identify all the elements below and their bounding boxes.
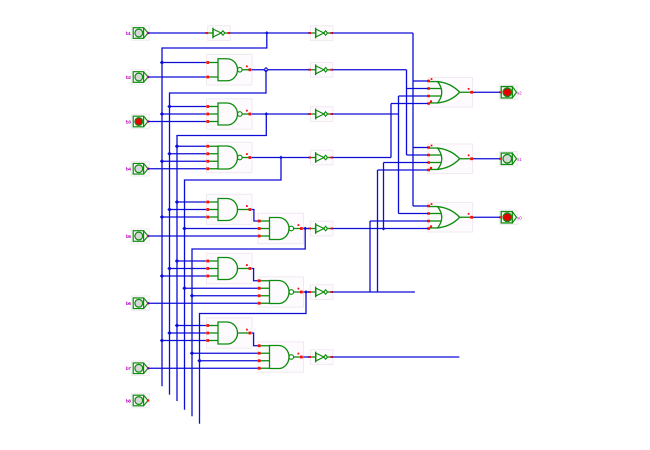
junction G out bbox=[304, 290, 308, 294]
junction hook bus2/B.in1 bbox=[167, 104, 171, 108]
input pin b1 bbox=[126, 26, 149, 40]
or gate Z (4-in) bbox=[427, 202, 473, 232]
svg-text:b2: b2 bbox=[126, 75, 132, 80]
wire V3 to OR3.in2 bbox=[399, 213, 429, 215]
wire bus3 to F.in1 bbox=[177, 260, 206, 262]
wire bus1 to D.in3 bbox=[162, 216, 206, 218]
junction hook bus2/F.in2 bbox=[167, 266, 171, 270]
input pin b6 bbox=[126, 296, 149, 310]
wire C branch to bus4 bbox=[185, 158, 282, 410]
wire bus3 to H.in1 bbox=[177, 325, 206, 327]
wire node V3 vertical bbox=[398, 96, 400, 214]
wire bus5 to I.in2 bbox=[192, 352, 258, 354]
wire inverter U3 to node V2 bbox=[332, 69, 406, 71]
wire pin b4 to C.in4 bbox=[148, 168, 206, 170]
wire pin b2 to A.in2 bbox=[148, 76, 206, 78]
nand gate E (3-in) bbox=[258, 213, 304, 243]
wire E out to inverter U6 bbox=[303, 228, 309, 230]
junction hook bus2/H.in2 bbox=[167, 331, 171, 335]
junction hook bus1/C.in3 bbox=[160, 159, 164, 163]
wire V2 to OR2.in2 bbox=[407, 154, 429, 156]
junction E out bbox=[303, 227, 307, 231]
wire V1 to OR3.in1 bbox=[413, 205, 428, 207]
junction hook bus3/C.in1 bbox=[175, 144, 179, 148]
wire bus2 to F.in2 bbox=[170, 268, 207, 270]
wire H out elbow to I.in1 bbox=[252, 333, 258, 346]
wire node V6 vertical bbox=[377, 170, 379, 292]
junction hook bus1/F.in3 bbox=[160, 274, 164, 278]
wire OR X to LED s2 bbox=[473, 91, 500, 93]
junction row1 bbox=[265, 31, 269, 35]
inverter U5 bbox=[308, 150, 333, 165]
wire inverter U6 to OR3.in4 bbox=[332, 228, 428, 230]
wire V3 to OR1.in3 bbox=[399, 95, 429, 97]
wire inverter U4 to node V3 bbox=[332, 113, 398, 115]
svg-text:b7: b7 bbox=[126, 366, 132, 371]
junction hook bus3/D.in1 bbox=[175, 200, 179, 204]
wire bus2 to D.in2 bbox=[170, 209, 207, 211]
junction hook bus5/I.in2 bbox=[190, 351, 194, 355]
or gate X (4-in) bbox=[427, 77, 473, 107]
wire G out to inverter U7 bbox=[303, 291, 309, 293]
wire A out to inverter U3 bbox=[252, 69, 309, 71]
output LED s0 (on) bbox=[499, 210, 522, 224]
junction C out bbox=[279, 156, 283, 160]
junction hook bus1/B.in2 bbox=[160, 112, 164, 116]
output LED s2 (on) bbox=[499, 85, 522, 99]
wire E branch to bus5 bbox=[192, 229, 305, 417]
nand gate G (4-in) bbox=[258, 277, 304, 307]
wire V5 to OR2.in3 bbox=[384, 162, 429, 164]
junction hook bus2/D.in2 bbox=[167, 207, 171, 211]
junction hook bus1/A.in1 bbox=[160, 60, 164, 64]
wire F out elbow to G.in1 bbox=[252, 269, 258, 281]
wire bus1 to F.in3 bbox=[162, 275, 206, 277]
svg-text:b3: b3 bbox=[126, 119, 132, 124]
wire pin b7 to I.in4 bbox=[148, 367, 258, 369]
wire V1 to OR1.in1 bbox=[413, 80, 428, 82]
svg-text:s2: s2 bbox=[517, 90, 522, 95]
wire inverter U8 dead-end bbox=[332, 356, 459, 358]
wire V1 to OR2.in1 bbox=[413, 147, 428, 149]
wire inverter U2 to node V1 bbox=[332, 32, 413, 34]
wire bus2 to C.in2 bbox=[170, 153, 207, 155]
wire OR Z to LED s0 bbox=[473, 216, 500, 218]
and gate D (3-in) bbox=[206, 194, 252, 224]
wire bus1 to C.in3 bbox=[162, 160, 206, 162]
wire pin b1 to inverter U1 bbox=[148, 32, 206, 34]
junction B out bbox=[264, 112, 268, 116]
junction A out bbox=[264, 68, 268, 72]
wire node V5 vertical bbox=[383, 163, 385, 229]
wire pin b5 to E.in3 bbox=[148, 235, 258, 237]
wire node V2 vertical bbox=[406, 70, 408, 155]
wire pin b6 to G.in4 bbox=[148, 302, 258, 304]
wire V6 to OR2.in4 bbox=[378, 169, 429, 171]
wire V2 to OR1.in2 bbox=[407, 88, 429, 90]
input pin b4 bbox=[126, 162, 149, 176]
wire inverter U7 dead-end bbox=[332, 291, 415, 293]
wire bus4 to G.in2 bbox=[185, 287, 258, 289]
wire B out to inverter U4 bbox=[252, 113, 309, 115]
input pin b8 bbox=[126, 393, 149, 407]
wire C out to inverter U5 bbox=[252, 157, 309, 159]
input pin b7 bbox=[126, 361, 149, 375]
wire bus6 to I.in3 bbox=[200, 360, 258, 362]
wire bus1 to B.in2 bbox=[162, 113, 206, 115]
wire bus3 to D.in1 bbox=[177, 201, 206, 203]
svg-text:s1: s1 bbox=[517, 157, 522, 162]
wire bus2 to B.in1 bbox=[170, 106, 207, 108]
svg-text:b4: b4 bbox=[126, 167, 132, 172]
junction hook bus4/E.in2 bbox=[182, 226, 186, 230]
input pin b3 (on) bbox=[126, 114, 149, 128]
wire bus5 to G.in3 bbox=[192, 295, 258, 297]
nand gate C (4-in) bbox=[206, 142, 252, 172]
wire OR Y to LED s1 bbox=[473, 158, 500, 160]
junction hook bus2/C.in2 bbox=[167, 152, 171, 156]
svg-text:s0: s0 bbox=[517, 215, 522, 220]
svg-text:b5: b5 bbox=[126, 234, 132, 239]
wire bus2 to H.in2 bbox=[170, 332, 207, 334]
junction hook bus6/I.in3 bbox=[197, 359, 201, 363]
junction hook bus3/H.in1 bbox=[175, 323, 179, 327]
junction hook bus3/F.in1 bbox=[175, 259, 179, 263]
wire V4 to OR1.in4 bbox=[391, 103, 428, 105]
wire bus3 to C.in1 bbox=[177, 145, 206, 147]
wire bus4 to E.in2 bbox=[185, 228, 258, 230]
svg-text:b8: b8 bbox=[126, 398, 132, 403]
junction hook bus1/D.in3 bbox=[160, 215, 164, 219]
wire inverter U5 to node V4 bbox=[332, 157, 391, 159]
inverter U4 bbox=[308, 107, 333, 122]
input pin b2 bbox=[126, 70, 149, 84]
svg-text:b6: b6 bbox=[126, 301, 132, 306]
and gate F (3-in) bbox=[206, 253, 252, 283]
wire G branch to bus6 bbox=[200, 292, 307, 424]
wire node V4 vertical bbox=[390, 104, 392, 158]
nand gate A (2-in) bbox=[206, 55, 252, 85]
wire D out elbow to E.in1 bbox=[252, 210, 258, 222]
inverter U8 bbox=[308, 350, 333, 365]
junction hook bus1/H.in3 bbox=[160, 338, 164, 342]
inverter U2 bbox=[308, 26, 333, 41]
nand gate B (3-in) bbox=[206, 99, 252, 129]
nand gate I (4-in) bbox=[258, 342, 304, 372]
input pin b5 bbox=[126, 229, 149, 243]
and gate H (3-in) bbox=[206, 318, 252, 348]
wire B branch to bus3 bbox=[177, 114, 266, 401]
inverter U3 bbox=[308, 62, 333, 77]
wire bus1 to H.in3 bbox=[162, 340, 206, 342]
svg-text:b1: b1 bbox=[126, 31, 132, 36]
wire V7 to OR3.in3 bbox=[370, 220, 428, 222]
inverter U7 bbox=[308, 285, 333, 300]
wire A branch to bus2 bbox=[170, 70, 267, 395]
wire bus1 to A.in1 bbox=[162, 62, 206, 64]
inverter U6 bbox=[308, 221, 333, 236]
or gate Y (4-in) bbox=[427, 144, 473, 174]
wire pin b3 to B.in3 bbox=[148, 121, 206, 123]
junction hook bus4/G.in2 bbox=[182, 286, 186, 290]
junction hook V5/INV6 bbox=[382, 227, 386, 231]
junction hook bus5/G.in3 bbox=[190, 294, 194, 298]
wire node V1 vertical bbox=[412, 33, 414, 206]
output LED s1 (off) bbox=[499, 152, 522, 166]
wire I out to inverter U8 bbox=[303, 356, 309, 358]
wire inverter U1 to inverter U2 bbox=[230, 32, 309, 34]
wire node V7 vertical bbox=[369, 221, 371, 292]
inverter U1 bbox=[206, 26, 231, 41]
wire row1 branch to bus1 bbox=[162, 33, 267, 386]
